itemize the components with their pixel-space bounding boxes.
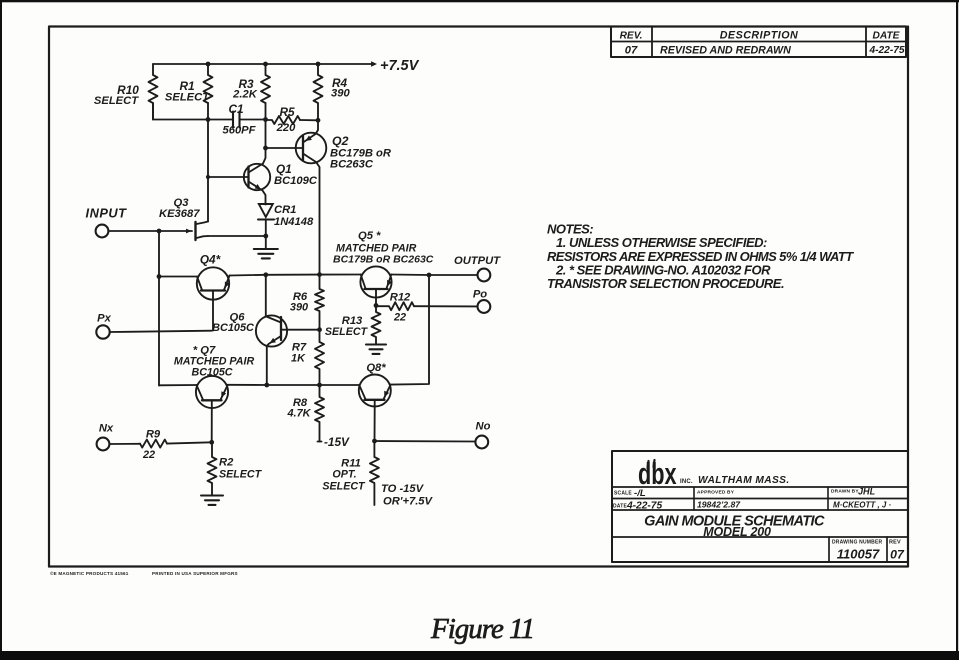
svg-text:REVISED AND REDRAWN: REVISED AND REDRAWN (660, 45, 791, 57)
wire R12 to Po (crosses output drop) (414, 305, 477, 307)
svg-text:DRAWING NUMBER: DRAWING NUMBER (832, 540, 882, 546)
wire R9 to Q7 base junction (167, 442, 212, 443)
label R12 22 (390, 292, 411, 324)
wire to No terminal (375, 440, 476, 443)
resistor R8 (315, 385, 324, 442)
resistor R6 (315, 275, 324, 330)
svg-text:Figure 11: Figure 11 (430, 613, 534, 645)
svg-text:OPT.: OPT. (332, 469, 356, 481)
svg-text:19842’2.87: 19842’2.87 (697, 500, 741, 510)
dbx logo (638, 456, 790, 491)
svg-text:BC105C: BC105C (212, 322, 254, 334)
label R13 SELECT (325, 315, 369, 338)
resistor R13 (372, 306, 381, 345)
svg-text:Q8*: Q8* (366, 362, 386, 374)
label Q8 * (366, 362, 386, 374)
junction dot Q8 base R11 No (372, 439, 377, 444)
junction dot output node (427, 273, 432, 278)
wire Q1 base (208, 176, 249, 178)
resistor R9 (140, 440, 167, 448)
svg-text:Px: Px (97, 313, 111, 325)
svg-text:Q1: Q1 (276, 162, 292, 176)
label R11 OPT. SELECT (322, 458, 366, 493)
junction dot lower rail Q6 emitter (264, 383, 269, 388)
terminal Nx (97, 438, 110, 451)
label R3 2.2K (232, 77, 258, 101)
transistor Q5 * matched pair (360, 266, 392, 305)
label TO -15V OR +7.5V (381, 483, 434, 508)
svg-text:BC109C: BC109C (274, 175, 318, 187)
label R2 SELECT (219, 457, 263, 481)
resistor R4 (314, 64, 323, 120)
wire Q6 emitter down (266, 347, 268, 386)
svg-text:CR1: CR1 (274, 204, 296, 216)
svg-text:WALTHAM MASS.: WALTHAM MASS. (698, 475, 790, 486)
wire input down branch (158, 231, 160, 386)
node -15V label (318, 435, 351, 449)
svg-text:Q2: Q2 (332, 134, 349, 148)
svg-text:dbx: dbx (638, 456, 677, 491)
transistor Q3 KE3687 (186, 222, 208, 241)
svg-text:PRINTED IN USA SUPERIOR MFGRS: PRINTED IN USA SUPERIOR MFGRS (152, 571, 238, 576)
resistor R12 (376, 302, 414, 310)
svg-text:4.7K: 4.7K (286, 408, 311, 420)
ground below R2 (201, 496, 223, 505)
svg-text:R9: R9 (146, 429, 161, 441)
transistor Q2 BC179B/BC263C (296, 120, 327, 274)
transistor Q4 (matched pair) (197, 267, 230, 330)
svg-text:22: 22 (142, 449, 155, 461)
svg-text:SELECT: SELECT (94, 95, 139, 107)
ground below CR1 (254, 236, 278, 258)
title block row: scale / approved / drawn (614, 487, 876, 500)
notes text (547, 222, 854, 292)
svg-text:OUTPUT: OUTPUT (454, 255, 501, 267)
svg-text:110057: 110057 (837, 547, 880, 562)
label CR1 1N4148 (274, 204, 314, 228)
label Q4 * (200, 253, 222, 267)
svg-text:C1: C1 (228, 102, 243, 116)
svg-text:Q5 *: Q5 * (358, 230, 381, 242)
label Q6 BC105C (212, 312, 254, 335)
svg-text:-15V: -15V (324, 435, 350, 449)
junction dot R4-R5-Q2 emitter (316, 118, 321, 123)
junction dot bus-R3 column (263, 117, 268, 122)
svg-text:220: 220 (276, 122, 296, 134)
label R9 22 (142, 429, 161, 462)
svg-text:©E MAGNETIC PRODUCTS 41561: ©E MAGNETIC PRODUCTS 41561 (50, 570, 129, 576)
revision table header text REV. DESCRIPTION DATE (620, 30, 901, 42)
svg-text:07: 07 (625, 45, 638, 57)
svg-text:DATE: DATE (873, 31, 901, 42)
junction dot Q6 base-R6-R7 (317, 327, 322, 332)
label Q1 BC109C (274, 162, 318, 187)
wire mid rail to R6 column (266, 274, 320, 276)
wire lower top bus (R10 bottom to C1) (153, 103, 233, 120)
junction dot Q4 base branch (157, 274, 162, 279)
capacitor C1 (233, 112, 240, 128)
transistor Q8 * (359, 375, 391, 442)
svg-text:BC179B oR BC263C: BC179B oR BC263C (333, 254, 434, 266)
label R1 SELECT (165, 79, 210, 104)
wire input branch corner to Q7 left (159, 384, 197, 386)
label R6 390 (290, 291, 308, 314)
revision table (611, 27, 906, 58)
label Po (473, 289, 487, 301)
revision row 07 REVISED AND REDRAWN 4-22-75 (625, 45, 905, 57)
junction dot Q5 base R12 R13 (374, 303, 379, 308)
label Q3 KE3687 (159, 197, 200, 220)
wire Q5 right to output node (391, 274, 429, 277)
svg-text:1. UNLESS OTHERWISE SPECIFIED:: 1. UNLESS OTHERWISE SPECIFIED: (556, 235, 767, 250)
junction dot input branch (157, 229, 162, 234)
svg-text:-/L: -/L (634, 488, 646, 499)
resistor R10 (149, 64, 158, 120)
resistor R1 (204, 64, 213, 103)
wire Q2 base from node A (266, 147, 304, 149)
drawing number 110057 rev 07 (832, 540, 905, 562)
wire Q6 collector to rail (265, 275, 267, 316)
junction dot rail-R4 (316, 62, 321, 67)
label R10 SELECT (94, 83, 139, 107)
wire to OUTPUT terminal (429, 274, 477, 276)
svg-text:DRAWN BY: DRAWN BY (831, 489, 859, 495)
transistor Q1 BC109C (244, 148, 270, 204)
junction dot Q1 base column (206, 175, 210, 179)
svg-text:DATE: DATE (613, 504, 628, 510)
junction dot rail-R6-Q2 collector (317, 272, 322, 277)
label R8 4.7K (286, 397, 311, 420)
wire Q3 drain column (to R1 bus and Q1 base) (207, 120, 209, 222)
label No (476, 421, 491, 433)
wire input line to Q3 gate (108, 230, 192, 232)
terminal Px (96, 325, 109, 338)
svg-text:1N4148: 1N4148 (274, 216, 314, 228)
svg-text:4-22-75: 4-22-75 (626, 501, 662, 512)
svg-text:SELECT: SELECT (165, 92, 210, 104)
svg-text:MODEL 200: MODEL 200 (703, 525, 771, 539)
svg-text:OR'+7.5V: OR'+7.5V (383, 496, 434, 508)
svg-text:390: 390 (331, 88, 350, 100)
svg-text:SCALE: SCALE (614, 491, 632, 497)
terminal No (475, 436, 488, 449)
junction dot R1-bus (206, 117, 211, 122)
title text GAIN MODULE SCHEMATIC MODEL 200 (644, 514, 825, 540)
wire R1 bottom stub (207, 103, 209, 120)
junction dot CR1-Q3 source (263, 234, 268, 239)
svg-text:R2: R2 (219, 457, 234, 469)
junction dot node A (Q1 collector / Q2 base / R3) (263, 146, 268, 151)
wire output node down to Q8 (391, 275, 429, 385)
transistor Q6 BC105C (256, 315, 320, 346)
wire Q4 right to rail (230, 274, 266, 277)
svg-text:560PF: 560PF (223, 125, 257, 137)
svg-text:INC.: INC. (680, 479, 693, 485)
svg-text:APPROVED BY: APPROVED BY (697, 490, 735, 496)
wire R3 bottom to Q1 collector junction (265, 103, 267, 148)
transistor Q7 (matched pair) (196, 376, 228, 442)
svg-text:M·CKEOTT , J ·: M·CKEOTT , J · (833, 501, 892, 510)
svg-text:07: 07 (890, 548, 905, 562)
resistor R7 (315, 330, 324, 385)
svg-text:TRANSISTOR SELECTION PROCEDURE: TRANSISTOR SELECTION PROCEDURE. (547, 276, 784, 291)
svg-text:R12: R12 (390, 292, 411, 304)
wire rail R6 to Q5 (320, 274, 361, 276)
svg-text:4-22-75: 4-22-75 (868, 45, 904, 56)
svg-text:No: No (476, 421, 491, 433)
svg-text:Q4*: Q4* (200, 253, 222, 267)
wire Px to Q4 base junction (crosses input branch) (110, 331, 212, 332)
junction dot rail-Q6 collector (263, 272, 268, 277)
wire Q7 right along lower rail (228, 384, 267, 386)
svg-text:REV: REV (889, 540, 901, 546)
label INPUT (86, 206, 128, 221)
terminal Po (478, 300, 491, 313)
label R5 220 (276, 105, 296, 134)
title block (612, 451, 908, 562)
label R7 1K (291, 342, 307, 365)
ground below R13 (366, 345, 386, 354)
label * Q7 MATCHED PAIR BC105C (174, 345, 255, 379)
label Q2 BC179B or BC263C (330, 134, 391, 171)
wire +7.5V rail (153, 63, 371, 65)
wire lower rail to Q8 (320, 384, 360, 386)
wire C1 to R5 junction (240, 119, 266, 121)
svg-text:DESCRIPTION: DESCRIPTION (720, 30, 799, 42)
junction dot rail-R1 (206, 62, 211, 67)
svg-text:JHL: JHL (858, 487, 876, 497)
label R4 390 (331, 76, 350, 100)
label Px (97, 313, 111, 325)
svg-text:BC105C: BC105C (192, 367, 233, 379)
terminal INPUT (96, 225, 109, 238)
junction dot rail-R3 (263, 62, 268, 67)
svg-text:R5: R5 (279, 105, 295, 119)
junction dot R7-R8 lower rail (317, 383, 322, 388)
svg-text:390: 390 (290, 302, 308, 314)
resistor R5 (266, 116, 301, 124)
svg-text:BC263C: BC263C (330, 159, 374, 171)
svg-text:TO -15V: TO -15V (381, 483, 425, 495)
svg-text:SELECT: SELECT (322, 481, 366, 493)
label C1 560PF (223, 102, 257, 137)
wire Q4 left to input branch (159, 276, 197, 278)
resistor R3 (261, 64, 270, 103)
resistor R11 (370, 441, 379, 505)
svg-text:2.2K: 2.2K (232, 89, 258, 101)
terminal OUTPUT (478, 269, 491, 282)
svg-text:Nx: Nx (99, 423, 114, 435)
svg-text:REV.: REV. (620, 31, 643, 42)
svg-text:1K: 1K (291, 353, 306, 365)
node +7.5V with arrow and label (371, 58, 420, 74)
title block row: date / checked (613, 500, 892, 512)
label Nx (99, 423, 114, 435)
caption Figure 11 (430, 613, 534, 645)
svg-text:SELECT: SELECT (325, 326, 369, 338)
wire R5 to R4 bottom junction (300, 119, 318, 121)
label OUTPUT (454, 255, 501, 267)
label Q5 * MATCHED PAIR BC179B or BC263C (333, 230, 434, 266)
tiny print under frame (50, 570, 238, 576)
svg-text:+7.5V: +7.5V (380, 58, 420, 74)
svg-text:KE3687: KE3687 (159, 208, 200, 220)
junction dot Q7 base R9 R2 (209, 440, 214, 445)
svg-text:SELECT: SELECT (219, 469, 263, 481)
resistor R2 (208, 442, 217, 494)
svg-text:INPUT: INPUT (86, 206, 128, 221)
wire Q3 source to CR1 node (208, 235, 266, 237)
wire lower rail to R7/R8 junction (267, 384, 320, 386)
diode CR1 1N4148 (258, 204, 274, 237)
svg-text:Po: Po (473, 289, 487, 301)
svg-text:22: 22 (393, 312, 406, 324)
wire Nx to R9 (109, 443, 140, 445)
